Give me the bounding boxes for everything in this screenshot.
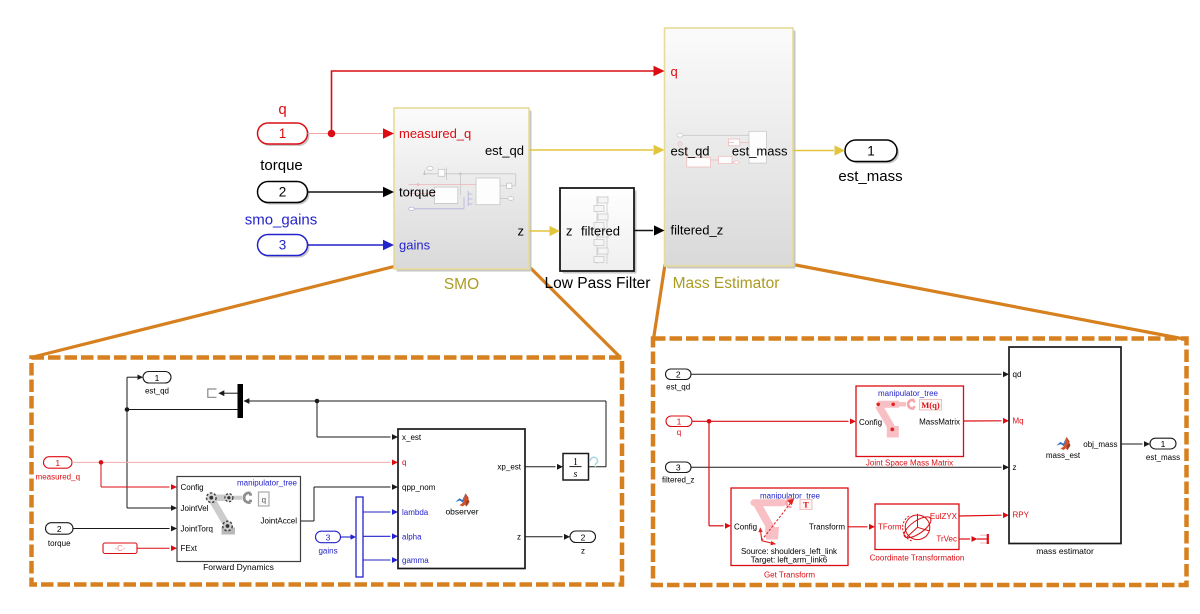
svg-text:Low Pass Filter: Low Pass Filter xyxy=(545,275,651,292)
svg-text:Joint Space Mass Matrix: Joint Space Mass Matrix xyxy=(866,458,953,467)
svg-text:q: q xyxy=(671,64,678,79)
svg-text:SMO: SMO xyxy=(444,276,479,293)
svg-text:q: q xyxy=(677,428,681,437)
svg-text:TForm: TForm xyxy=(878,523,902,532)
svg-text:est_qd: est_qd xyxy=(671,144,710,159)
svg-text:xp_est: xp_est xyxy=(497,463,521,472)
svg-text:1: 1 xyxy=(155,373,160,383)
svg-text:Config: Config xyxy=(859,418,882,427)
svg-text:EulZYX: EulZYX xyxy=(930,512,958,521)
svg-text:2: 2 xyxy=(279,185,287,200)
svg-text:Forward Dynamics: Forward Dynamics xyxy=(203,562,274,572)
svg-text:2: 2 xyxy=(57,524,62,534)
svg-text:torque: torque xyxy=(399,185,436,200)
svg-text:1: 1 xyxy=(677,417,682,427)
svg-text:z: z xyxy=(581,547,585,556)
svg-text:q: q xyxy=(262,496,266,505)
svg-text:est_mass: est_mass xyxy=(838,168,902,185)
svg-text:T: T xyxy=(803,499,809,509)
svg-text:q: q xyxy=(278,101,286,118)
svg-text:3: 3 xyxy=(676,463,681,473)
svg-text:est_qd: est_qd xyxy=(145,387,169,396)
svg-text:mass_est: mass_est xyxy=(1046,451,1081,460)
svg-text:est_qd: est_qd xyxy=(666,383,690,392)
svg-text:est_qd: est_qd xyxy=(485,143,524,158)
svg-text:1: 1 xyxy=(279,126,287,141)
svg-text:Mass Estimator: Mass Estimator xyxy=(673,275,780,292)
svg-text:1: 1 xyxy=(867,144,875,159)
svg-text:manipulator_tree: manipulator_tree xyxy=(237,479,298,488)
svg-text:gains: gains xyxy=(318,547,337,556)
svg-text:alpha: alpha xyxy=(402,532,422,541)
svg-text:smo_gains: smo_gains xyxy=(245,212,318,229)
svg-text:torque: torque xyxy=(48,539,71,548)
svg-text:Target: left_arm_link6: Target: left_arm_link6 xyxy=(751,555,828,564)
svg-text:est_mass: est_mass xyxy=(1146,453,1180,462)
svg-text:gamma: gamma xyxy=(402,556,429,565)
svg-text:gains: gains xyxy=(399,238,431,253)
svg-text:JointVel: JointVel xyxy=(181,504,209,513)
svg-text:RPY: RPY xyxy=(1013,511,1030,520)
svg-text:Config: Config xyxy=(734,522,757,531)
svg-text:torque: torque xyxy=(260,157,303,174)
svg-text:observer: observer xyxy=(445,506,478,516)
svg-text:M(q): M(q) xyxy=(921,400,940,410)
svg-text:manipulator_tree: manipulator_tree xyxy=(878,389,939,398)
svg-text:z: z xyxy=(518,224,525,239)
svg-text:measured_q: measured_q xyxy=(36,473,80,482)
svg-text:-C-: -C- xyxy=(114,544,125,553)
svg-text:lambda: lambda xyxy=(402,508,429,517)
svg-text:2: 2 xyxy=(581,533,586,543)
svg-text:measured_q: measured_q xyxy=(399,126,471,141)
svg-text:s: s xyxy=(574,469,578,480)
svg-text:MassMatrix: MassMatrix xyxy=(919,417,960,426)
svg-text:z: z xyxy=(1013,463,1017,472)
svg-text:qpp_nom: qpp_nom xyxy=(402,483,436,492)
svg-text:Mq: Mq xyxy=(1013,416,1024,425)
svg-text:3: 3 xyxy=(279,238,287,253)
svg-text:Coordinate Transformation: Coordinate Transformation xyxy=(870,553,965,562)
svg-text:q: q xyxy=(402,458,406,467)
svg-text:obj_mass: obj_mass xyxy=(1083,440,1117,449)
svg-text:mass estimator: mass estimator xyxy=(1036,546,1094,556)
svg-text:Transform: Transform xyxy=(809,522,845,531)
svg-text:filtered: filtered xyxy=(581,224,620,239)
svg-text:3: 3 xyxy=(326,533,331,543)
svg-text:JointTorq: JointTorq xyxy=(181,524,213,533)
svg-text:2: 2 xyxy=(676,370,681,380)
svg-text:filtered_z: filtered_z xyxy=(662,476,694,485)
svg-text:z: z xyxy=(566,224,573,239)
svg-text:est_mass: est_mass xyxy=(732,144,788,159)
svg-text:filtered_z: filtered_z xyxy=(671,223,724,238)
svg-text:Config: Config xyxy=(181,483,204,492)
svg-text:JointAccel: JointAccel xyxy=(261,517,298,526)
svg-text:TrVec: TrVec xyxy=(936,535,957,544)
svg-text:x_est: x_est xyxy=(402,433,422,442)
svg-text:FExt: FExt xyxy=(181,544,198,553)
svg-text:1: 1 xyxy=(1161,439,1166,449)
svg-text:Get Transform: Get Transform xyxy=(764,571,815,580)
svg-text:z: z xyxy=(517,533,521,542)
svg-text:1: 1 xyxy=(55,458,60,468)
svg-text:qd: qd xyxy=(1013,370,1022,379)
